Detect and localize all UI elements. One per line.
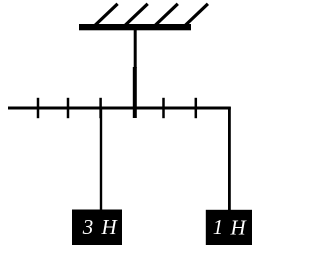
ceiling hatch 2 (125, 4, 147, 25)
tick 2 (67, 98, 70, 118)
svg-text:Н: Н (101, 215, 119, 239)
right weight box (206, 210, 252, 245)
left weight string (100, 108, 102, 210)
right weight string (228, 107, 231, 212)
svg-text:3: 3 (82, 215, 94, 239)
suspension wire lower (133, 67, 137, 118)
tick 4 (162, 98, 165, 118)
tick 1 (37, 98, 40, 118)
beam (8, 107, 231, 110)
ceiling hatch 1 (95, 4, 117, 25)
tick 5 (195, 98, 198, 118)
ceiling hatch 3 (156, 4, 178, 25)
suspension wire upper (134, 30, 137, 68)
ceiling hatch 4 (186, 4, 208, 25)
ceiling bar (79, 24, 191, 30)
left weight box (72, 210, 122, 246)
svg-text:1: 1 (213, 215, 224, 239)
svg-text:Н: Н (230, 215, 248, 239)
tick 3 (99, 98, 102, 118)
